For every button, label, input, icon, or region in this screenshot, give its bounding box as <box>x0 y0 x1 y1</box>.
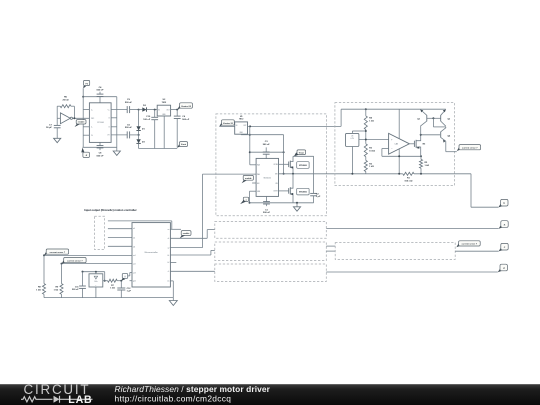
gate driver U7 MC34152 <box>256 158 278 196</box>
ground MCU <box>172 298 174 301</box>
wire feedback left <box>56 106 58 118</box>
resistor R4 1k <box>365 109 367 116</box>
svg-text:VEE: VEE <box>257 191 260 193</box>
svg-text:vss: vss <box>167 281 170 283</box>
wire IC left pin 4 <box>83 134 89 136</box>
wire inverter output to IC <box>73 117 90 119</box>
wire J1 pin4 <box>108 245 132 247</box>
flag enable net 1 <box>75 124 80 127</box>
reference source U4 <box>346 133 359 146</box>
capacitor C10 100nF <box>154 109 156 111</box>
wire U9 out <box>103 280 108 282</box>
dashed block current sense B <box>335 243 455 260</box>
svg-text:50 pF: 50 pF <box>46 127 52 129</box>
wire left vertical bus <box>82 97 84 148</box>
wire MCU to bridge B <box>170 254 211 256</box>
wire Q2 diode connection <box>432 118 434 127</box>
flag current sense input 1 <box>44 251 48 255</box>
op-amp U1 oscillator IC <box>89 103 111 143</box>
diode D2 <box>139 109 143 111</box>
capacitor C5 500nF <box>111 134 127 136</box>
svg-text:500 nF: 500 nF <box>72 289 79 291</box>
node top rail left <box>82 96 84 98</box>
node inverter output <box>73 117 75 119</box>
svg-text:Q2: Q2 <box>448 119 451 121</box>
wire U5 out to sense block <box>248 125 342 127</box>
resistor R2 1k <box>365 157 367 161</box>
svg-text:+: + <box>95 285 96 287</box>
amplifier U9 <box>89 274 103 287</box>
svg-text:io3: io3 <box>133 247 135 249</box>
svg-text:OUT: OUT <box>243 125 246 127</box>
flag -v half-bridge <box>243 197 248 201</box>
wire R4-R3 node <box>365 130 367 144</box>
flag terminal d <box>498 268 502 272</box>
svg-text:a2: a2 <box>168 247 170 249</box>
svg-text:500 nF: 500 nF <box>97 90 105 92</box>
svg-text:an2: an2 <box>133 263 136 265</box>
svg-text:gnd: gnd <box>133 281 136 283</box>
wire Vmain to U5 <box>219 125 234 127</box>
transistor M3 <box>413 141 415 147</box>
svg-text:LV: LV <box>91 135 93 137</box>
wire J1 to MCU vdd <box>108 220 172 222</box>
svg-text:enable: enable <box>78 122 85 124</box>
svg-text:b2: b2 <box>168 262 170 264</box>
wire supply riser <box>340 109 342 126</box>
capacitor C2 1uF <box>313 156 315 193</box>
wire phase output row <box>279 173 403 175</box>
wire U4 top pin <box>351 131 353 133</box>
svg-text:U4: U4 <box>351 136 353 138</box>
wire J1 pin2 <box>108 228 132 230</box>
wire probe to MCU <box>128 275 130 277</box>
transistor M2 NTD4906 low side <box>288 188 290 194</box>
wire U4 right pin to op-amp <box>359 139 389 141</box>
dashed block half-bridge B <box>215 242 326 261</box>
flag enable half-bridge <box>242 180 247 183</box>
voltage regulator U5 7812 <box>235 122 248 134</box>
capacitor C8 500nF <box>99 142 101 145</box>
wire mirror node <box>421 134 440 136</box>
diode D3 <box>138 135 140 139</box>
svg-text:500 nF: 500 nF <box>263 212 271 214</box>
wire MCU stub b2 <box>170 261 176 263</box>
wire driver left stub 3 <box>252 182 256 184</box>
flag terminal b <box>498 203 502 207</box>
flag Vmain+12 half-bridge <box>219 122 223 126</box>
svg-text:enable: enable <box>245 178 252 180</box>
svg-text:Vmain+12: Vmain+12 <box>223 123 234 125</box>
op-amp CA3 <box>389 133 410 154</box>
capacitor C4 500nF <box>99 92 101 94</box>
flag terminal a <box>499 225 503 229</box>
svg-text:an3: an3 <box>133 272 136 274</box>
wire sense top rail <box>341 108 446 110</box>
svg-text:100 nF: 100 nF <box>143 119 151 121</box>
svg-text:LTC1044: LTC1044 <box>97 122 104 124</box>
node U2 out <box>176 109 178 111</box>
flag +v supply <box>84 80 90 85</box>
wire sense 2 to MCU <box>62 263 133 265</box>
svg-text:IN: IN <box>236 125 238 127</box>
flag current sense input 2 <box>62 260 66 264</box>
svg-text:Vmot: Vmot <box>181 143 187 146</box>
wire U4 bottom pin <box>351 147 353 174</box>
svg-text:Vmain+12: Vmain+12 <box>181 106 192 108</box>
svg-text:IN: IN <box>158 110 160 112</box>
wire U5 aux drop <box>249 126 251 164</box>
capacitor C11 500nF <box>82 271 84 273</box>
svg-text:500 nF: 500 nF <box>125 102 133 104</box>
dashed block half-bridge A <box>215 222 326 239</box>
wire bridge B to sense B lower <box>326 250 335 252</box>
flag Vmain+12 top-left <box>177 105 181 109</box>
svg-text:500 nF: 500 nF <box>97 155 105 157</box>
wire MCU to bridge C <box>170 270 214 272</box>
wire aux row 2 <box>250 151 284 153</box>
transistor M1 NTD4906 high side <box>288 162 290 168</box>
adc probe A <box>122 274 127 279</box>
wire MCU to bridge A <box>170 237 207 239</box>
resistor R3 10k <box>364 144 367 157</box>
wire feedback right <box>73 106 75 118</box>
wire driver left pin 4 to rail <box>250 190 257 192</box>
flag terminal c <box>499 247 503 251</box>
transistor Q4 NPN <box>440 132 442 138</box>
svg-text:MC34152: MC34152 <box>264 177 271 179</box>
svg-text:1 kΩ: 1 kΩ <box>54 290 59 292</box>
wire bridge B to sense B upper <box>326 245 335 247</box>
svg-text:Microcontroller: Microcontroller <box>145 251 158 254</box>
inverter U6 <box>60 113 70 124</box>
svg-text:http://circuitlab.com/cm2dccq: http://circuitlab.com/cm2dccq <box>115 394 232 404</box>
svg-text:current sense ?: current sense ? <box>462 243 478 246</box>
svg-text:LAB: LAB <box>68 394 92 405</box>
flag current sense out <box>457 147 461 151</box>
wire U2 output <box>171 109 179 111</box>
wire IC right pin 2 <box>111 117 117 119</box>
flag Vmot half-bridge <box>297 150 306 155</box>
flag enable MCU <box>180 235 185 238</box>
wire right vertical bus <box>116 97 118 148</box>
ground top-left block <box>116 147 118 151</box>
resistor R1 100mOhm shunt <box>403 172 414 175</box>
svg-text:RichardThiessen / stepper moto: RichardThiessen / stepper motor driver <box>115 384 271 394</box>
svg-text:a1: a1 <box>168 238 170 240</box>
wire MCU ground <box>170 280 173 282</box>
dashed block half-bridge 1 <box>216 114 327 216</box>
wire inverter input <box>57 117 60 119</box>
svg-text:an1: an1 <box>133 255 136 257</box>
svg-text:Input output (DroneXc) motion: Input output (DroneXc) motion controller <box>84 208 137 212</box>
node op-amp vminus rail <box>398 173 400 175</box>
svg-text:500 nF: 500 nF <box>263 144 271 146</box>
capacitor C12 1uF <box>120 280 122 282</box>
node X2 <box>138 134 140 136</box>
wire IC left pin 1 <box>83 109 89 111</box>
resistor R9 1k <box>61 264 63 284</box>
resistor R5 1k <box>419 159 422 168</box>
svg-text:1 kΩ: 1 kΩ <box>369 166 374 168</box>
capacitor C7 50pF <box>56 118 58 125</box>
wire U5 gnd to output node <box>240 133 242 136</box>
svg-text:NTD4906: NTD4906 <box>299 191 307 194</box>
flag current sense B out <box>456 243 460 247</box>
svg-text:OUT: OUT <box>166 110 169 112</box>
transistor Q3 PNP <box>420 126 422 135</box>
wire MCU to half-bridge 1 <box>170 247 202 249</box>
svg-text:1 μF: 1 μF <box>127 291 132 293</box>
flag -v supply <box>81 148 84 153</box>
node U5 out <box>249 125 251 127</box>
svg-text:current sense ?: current sense ? <box>50 251 66 254</box>
wire Vmot node to C2 rail <box>293 155 314 157</box>
svg-text:OUTB: OUTB <box>273 191 277 193</box>
wire phase to terminal b <box>470 174 472 207</box>
wire amp top <box>83 271 105 273</box>
svg-text:EN: EN <box>257 183 259 185</box>
svg-text:100x: 100x <box>94 281 98 283</box>
svg-text:1 kΩ: 1 kΩ <box>36 290 41 292</box>
svg-text:VB: VB <box>275 183 277 185</box>
wire bridge C output <box>326 271 498 273</box>
wire sense B output <box>455 250 498 252</box>
wire bottom rail <box>83 146 117 148</box>
connector J1 dashed <box>95 216 105 249</box>
wire +v to top rail <box>82 88 84 97</box>
wire op-amp feedback <box>382 148 389 150</box>
svg-text:CA3: CA3 <box>394 143 398 146</box>
wire gate top mosfet <box>279 163 289 165</box>
svg-text:1 kΩ: 1 kΩ <box>425 165 430 167</box>
ground at C7 <box>54 138 61 142</box>
wire mirror base row <box>427 117 441 119</box>
svg-text:10 kΩ: 10 kΩ <box>369 150 375 152</box>
transistor Q2 PNP <box>440 115 442 121</box>
svg-text:io1: io1 <box>133 228 135 230</box>
svg-text:current sense ?: current sense ? <box>67 259 83 262</box>
svg-text:Q3: Q3 <box>417 119 420 121</box>
wire MCU enable stub <box>170 228 181 230</box>
capacitor C3 500nF <box>265 147 267 152</box>
node X1 <box>138 109 140 111</box>
svg-text:INB: INB <box>257 174 260 176</box>
capacitor C1 500nF <box>266 196 268 201</box>
flag Vmot top-left <box>177 143 181 147</box>
capacitor C9 500nF <box>111 109 127 111</box>
wire J1 pin3 <box>108 237 132 239</box>
node driver ref <box>283 173 285 175</box>
svg-text:en: en <box>168 229 170 231</box>
wire IC right pin 3 <box>111 126 117 128</box>
wire charge-pump bottom rail <box>139 148 178 150</box>
svg-text:enable: enable <box>183 233 190 235</box>
svg-text:500 nF: 500 nF <box>125 127 133 129</box>
svg-text:Vmot: Vmot <box>299 152 305 155</box>
svg-text:500 nF: 500 nF <box>182 119 190 121</box>
wire MCU left pin stub row7 <box>130 280 133 282</box>
wire analog bottom rail <box>44 297 173 299</box>
svg-text:M3: M3 <box>423 144 426 146</box>
wire op-amp supply column <box>398 109 400 174</box>
svg-text:c1: c1 <box>168 271 170 273</box>
svg-text:C+: C+ <box>91 109 93 111</box>
wire U2 ground <box>163 116 165 149</box>
capacitor C6 500nF <box>176 110 178 117</box>
wire top rail <box>83 96 117 98</box>
wire op-amp output <box>409 143 414 145</box>
wire driver left pin 1 <box>250 164 256 166</box>
wire IC left pin 3 <box>83 126 89 128</box>
wire Q4 emitter to flag <box>445 141 447 152</box>
svg-text:V+: V+ <box>108 109 110 111</box>
wire half-bridge bottom rail <box>250 202 314 204</box>
ground half-bridge <box>296 203 298 207</box>
svg-text:current sense ?: current sense ? <box>462 146 478 149</box>
node R4 top <box>365 108 367 110</box>
resistor R8 1k <box>43 255 45 283</box>
dashed block current sense 1 <box>335 103 455 186</box>
dashed block half-bridge C <box>215 264 326 282</box>
svg-text:1 kΩ: 1 kΩ <box>110 288 115 290</box>
svg-text:100 mΩ: 100 mΩ <box>404 180 412 182</box>
svg-text:1 kΩ: 1 kΩ <box>369 121 374 123</box>
wire driver input enable <box>203 173 257 175</box>
wire bridge A output <box>326 228 498 230</box>
svg-text:b1: b1 <box>168 255 170 257</box>
wire gate bottom mosfet <box>279 190 289 192</box>
logo wire resistor diode <box>21 397 52 402</box>
resistor R6 20k <box>57 105 60 107</box>
footer bar <box>0 0 1 1</box>
svg-text:NTD4906: NTD4906 <box>299 164 307 167</box>
wire U9 bottom <box>95 287 97 298</box>
svg-text:io2: io2 <box>133 238 135 240</box>
voltage regulator U2 7812 <box>157 105 170 116</box>
diode D1 <box>138 110 140 127</box>
svg-text:20 kΩ: 20 kΩ <box>62 99 68 101</box>
svg-text:1 μF: 1 μF <box>316 196 321 198</box>
resistor R7 1k <box>108 279 118 282</box>
node phase at M1 <box>292 173 294 175</box>
microcontroller U8 <box>132 223 170 287</box>
wire sense 1 to MCU <box>44 254 132 256</box>
